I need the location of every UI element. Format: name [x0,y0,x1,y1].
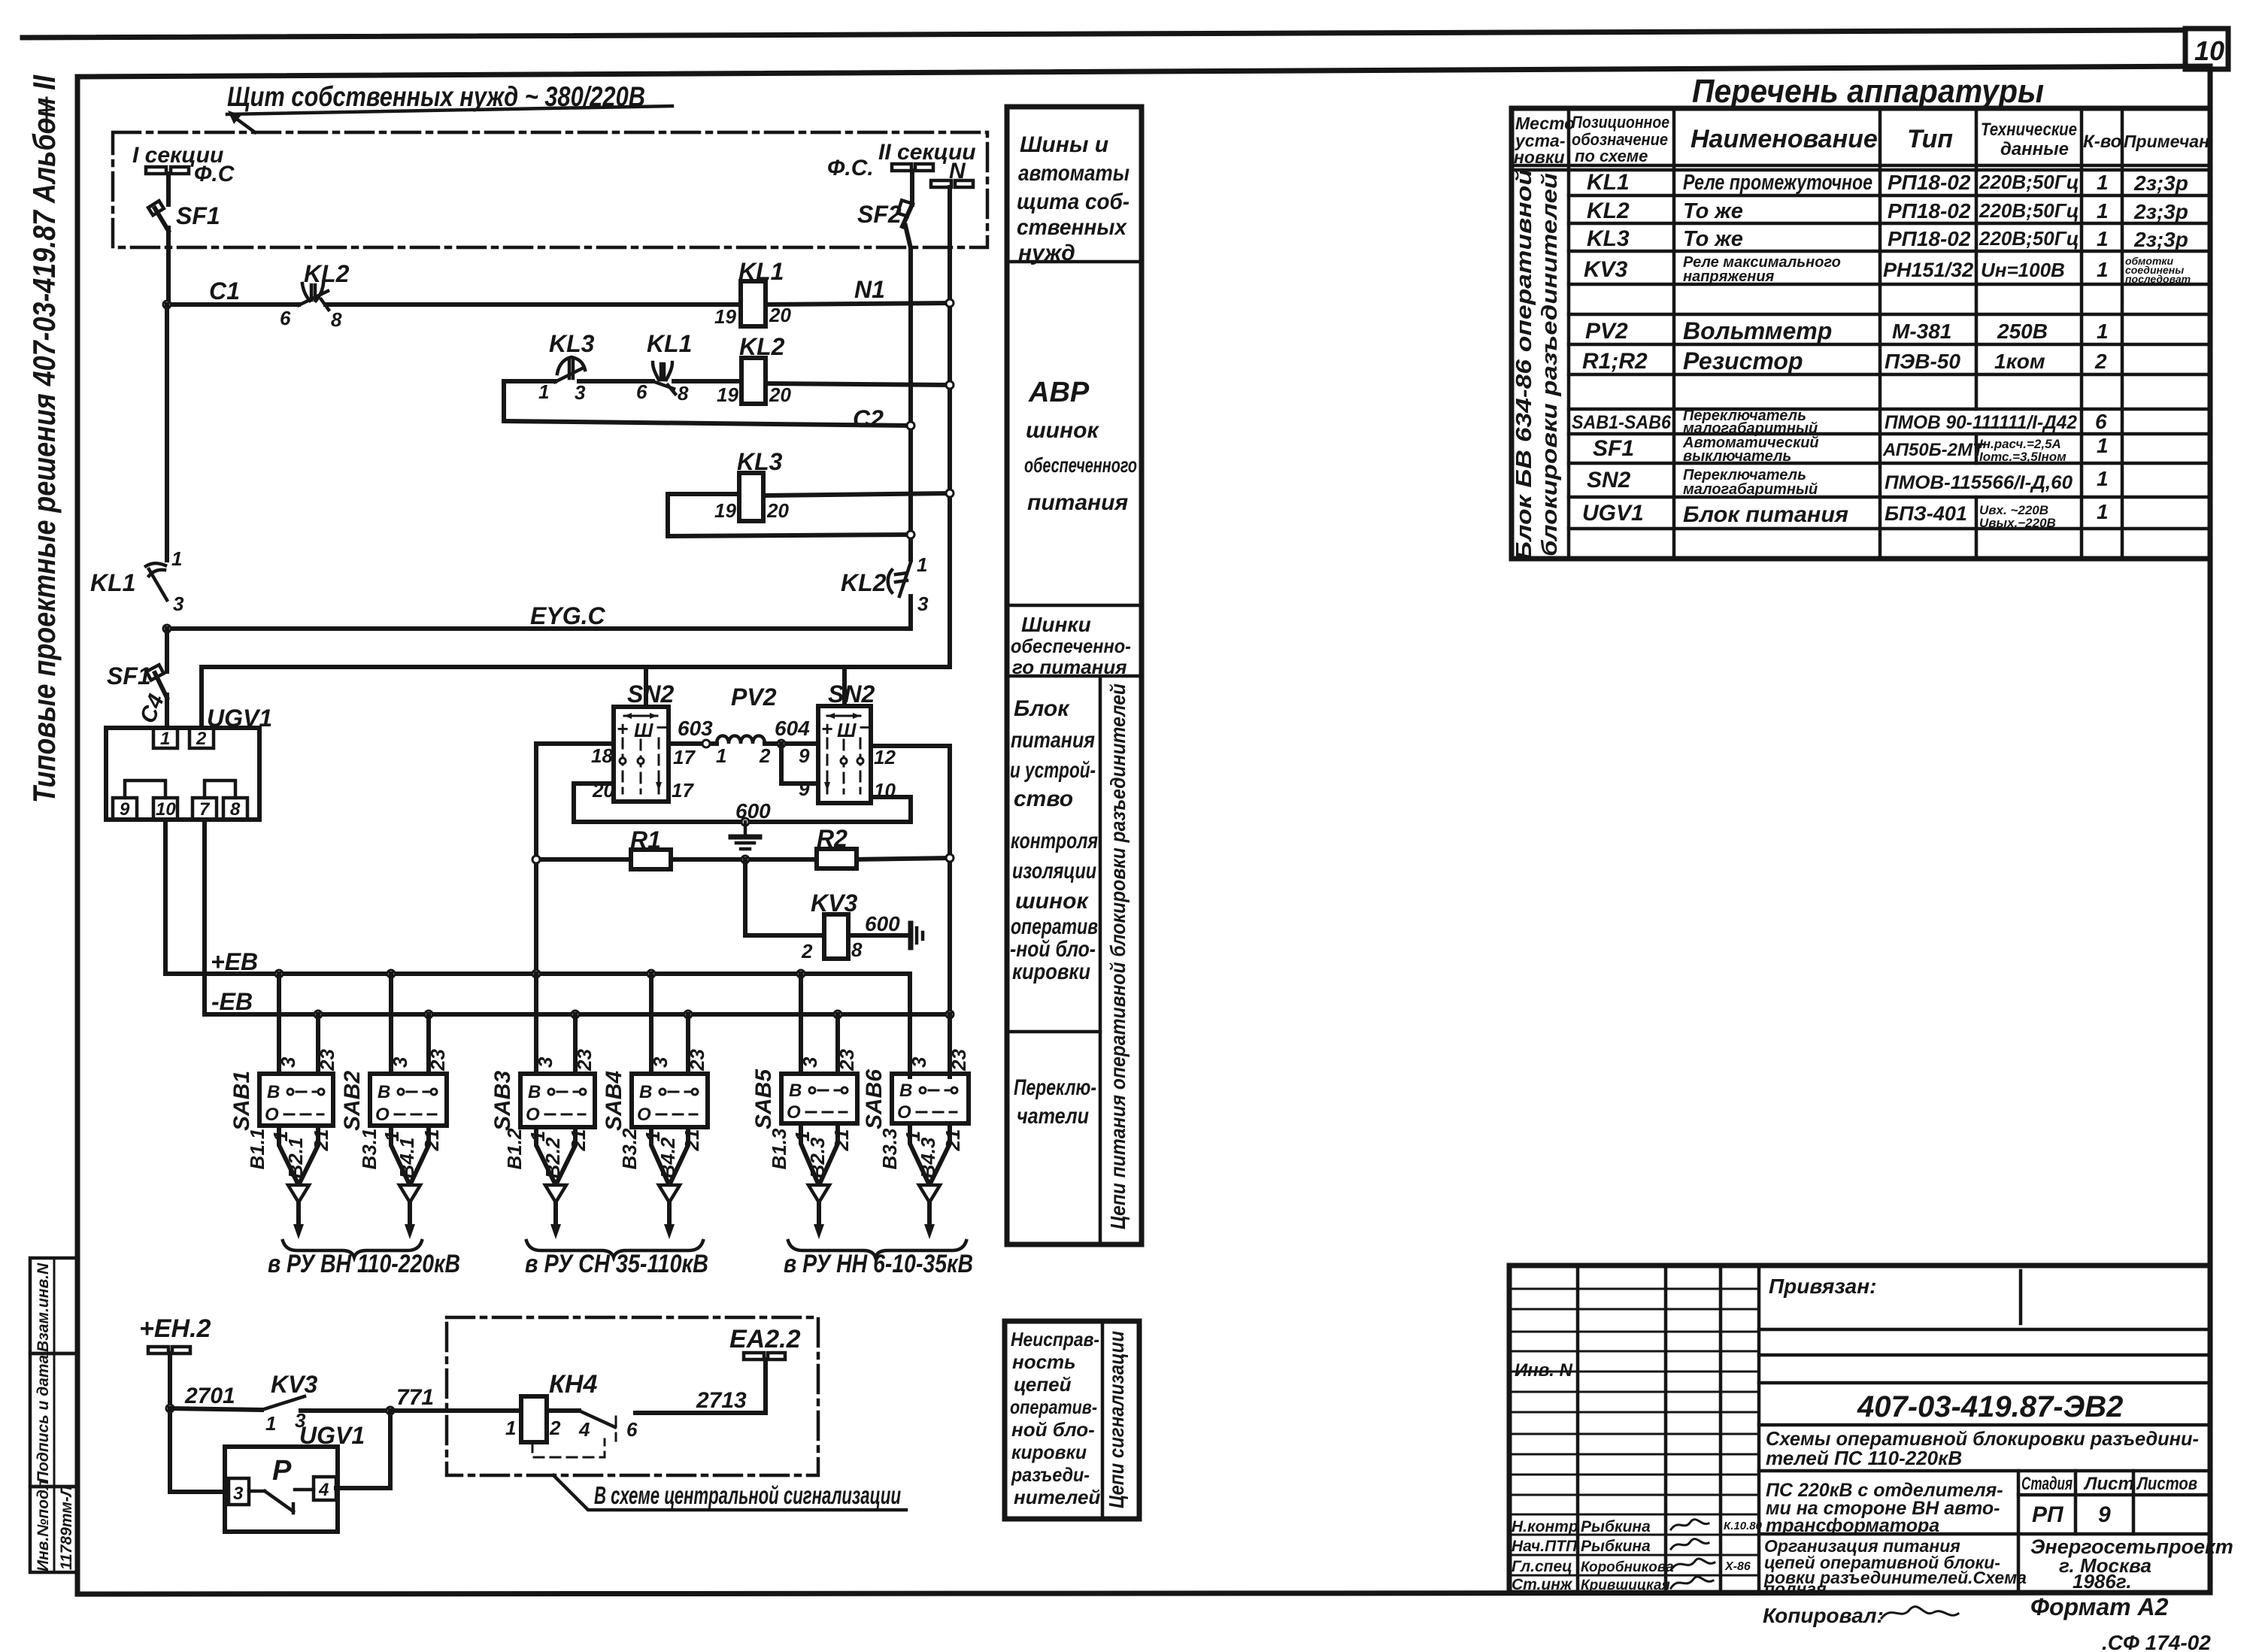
svg-text:малогабаритный: малогабаритный [1683,481,1818,498]
svg-text:12: 12 [874,746,896,768]
header Tekhnicheskie dannye [1981,120,2077,159]
svg-text:Р: Р [272,1455,292,1487]
svg-text:1: 1 [2097,227,2109,250]
svg-text:KL3: KL3 [737,448,783,475]
table column line 4 [1975,108,1979,559]
title block frame [1509,1266,2210,1593]
svg-text:телей ПС 110-220кВ: телей ПС 110-220кВ [1766,1447,1962,1469]
bus +EB [165,974,910,1077]
wire SAB5 pin23 [835,1014,840,1074]
svg-text:21: 21 [681,1129,703,1152]
node N1 on wire2 [946,299,954,307]
svg-text:3: 3 [233,1484,244,1504]
svg-text:РП18-02: РП18-02 [1888,171,1971,194]
svg-text:KL2: KL2 [304,260,350,287]
contact KH4 dashed tick [615,1417,617,1441]
zone text: AVR shinok [1024,377,1137,515]
svg-text:Рыбкина: Рыбкина [1581,1518,1651,1535]
svg-text:Блок питания: Блок питания [1683,502,1848,527]
svg-text:3: 3 [799,1056,821,1068]
underline of Album II [46,98,48,132]
svg-text:2: 2 [801,940,813,962]
svg-text:О: О [637,1105,651,1125]
row line KL3 [1569,250,2210,253]
switch SAB2 [340,1071,447,1131]
wire coil KL1 to N wire [766,303,950,305]
contact KH4 blade [579,1411,615,1427]
wire EYG.C down to SF1 lower [165,629,169,671]
svg-text:R1: R1 [630,826,661,853]
svg-text:R1;R2: R1;R2 [1582,349,1648,374]
svg-text:4: 4 [578,1418,590,1441]
svg-text:О: О [526,1105,540,1125]
relay coil KL3 [739,473,763,521]
wire SAB1 pin3 [277,974,281,1074]
wire row2 to coil KL2 [674,379,741,383]
wire SN2 top tap left [644,667,648,707]
svg-text:Копировал:: Копировал: [1763,1604,1884,1627]
wire 604 jog down to pin9 bottom [781,744,818,784]
svg-text:Наименование: Наименование [1690,125,1878,153]
svg-text:АП50Б-2МТ: АП50Б-2МТ [1882,440,1985,460]
wire KH4 to contact [547,1408,579,1413]
wire row2 between contacts [579,379,653,383]
leader to central signaling label [553,1475,906,1510]
svg-text:220В;50Гц: 220В;50Гц [1979,171,2079,193]
svg-text:Примечан.: Примечан. [2124,132,2214,151]
wire2 from N busbar down to pin2 line corner [948,187,952,667]
contact KV3 [262,1396,305,1410]
svg-text:ство: ство [1014,787,1073,811]
wire SN2 right top tap [842,667,847,706]
funnel SAB5 [801,1123,838,1239]
svg-text:РН151/32: РН151/32 [1883,259,1973,281]
wire 600 line [574,820,911,824]
svg-text:Гл.спец: Гл.спец [1512,1558,1572,1575]
zone divider 4 [1007,1030,1100,1034]
svg-text:SAB1: SAB1 [229,1071,254,1131]
svg-text:250В: 250В [1997,320,2048,343]
object description [1766,1480,2003,1536]
svg-text:KV3: KV3 [1584,257,1628,282]
svg-text:2713: 2713 [696,1388,747,1413]
svg-text:2: 2 [549,1417,561,1439]
small divider in privyazan cell [2019,1271,2023,1323]
svg-text:2701: 2701 [184,1384,235,1408]
svg-text:8: 8 [331,308,342,331]
svg-text:604: 604 [775,717,810,740]
svg-text:В: В [378,1082,390,1102]
svg-text:X-86: X-86 [1724,1560,1751,1573]
svg-text:3: 3 [389,1056,411,1068]
svg-text:1986г.: 1986г. [2073,1570,2132,1593]
svg-text:в РУ НН 6-10-35кВ: в РУ НН 6-10-35кВ [784,1250,973,1278]
stage header row line [2018,1493,2210,1497]
svg-text:UGV1: UGV1 [207,705,272,732]
svg-text:600: 600 [865,912,900,935]
svg-text:шинок: шинок [1026,418,1099,443]
svg-text:Перечень аппаратуры: Перечень аппаратуры [1692,73,2044,110]
svg-text:Стадия: Стадия [2021,1474,2073,1494]
svg-text:данные: данные [2000,139,2069,159]
svg-text:603: 603 [678,717,713,740]
svg-text:В2.1: В2.1 [284,1138,307,1179]
wire1 contact to EYG.C corner [167,596,911,629]
work description [1763,1536,2027,1599]
svg-text:-EB: -EB [211,988,253,1015]
svg-text:+: + [821,717,832,740]
contact KL2 on C1 bus [299,283,329,310]
brace RU NN [788,1241,966,1257]
svg-text:Подпись и дата: Подпись и дата [35,1354,52,1483]
svg-text:KL1: KL1 [738,258,784,285]
svg-text:шинок: шинок [1015,889,1089,914]
resistor R1 [630,826,671,869]
node row3 lower on wire1 [907,531,914,538]
svg-text:1: 1 [2097,199,2109,223]
svg-text:оператив-: оператив- [1010,1396,1097,1418]
wire2b continue to SAB6 23 [948,1014,952,1077]
svg-text:2з;3р: 2з;3р [2133,228,2188,251]
wire SAB4 pin3 [649,974,653,1074]
node -EB SAB5 [834,1011,841,1018]
svg-text:21: 21 [567,1129,590,1152]
svg-text:блокировки разъединителей: блокировки разъединителей [1538,173,1562,556]
wire contact to node 771 [301,1408,390,1413]
svg-text:+EH.2: +EH.2 [139,1314,211,1343]
svg-text:В: В [528,1082,541,1102]
svg-text:ПМОВ-115566/I-Д,60: ПМОВ-115566/I-Д,60 [1885,472,2073,493]
svg-text:-ной бло-: -ной бло- [1010,937,1096,962]
row SF1 [1593,434,2109,465]
node +EB SAB4 [647,970,655,978]
svg-text:+EB: +EB [211,948,258,975]
svg-text:Лист: Лист [2083,1474,2134,1494]
svg-text:2: 2 [759,744,771,767]
svg-text:SAB1-SAB6: SAB1-SAB6 [1572,412,1672,433]
node +EB SAB2 [387,970,395,978]
svg-text:питания: питания [1011,728,1095,753]
zone divider 3 [1007,674,1142,678]
power unit UGV1 [106,705,272,820]
row KL3 [1587,226,2188,251]
svg-text:10: 10 [2194,35,2224,66]
svg-text:PV2: PV2 [1585,319,1628,344]
sheet title: Щит собственных нужд [227,81,672,114]
svg-text:Тип: Тип [1907,125,1953,153]
row line KL2 [1569,222,2210,226]
UGV1 pin 9 [113,798,137,820]
svg-text:2: 2 [2094,350,2107,373]
relay coil KL2 [741,358,766,404]
node -EB SAB4 [684,1011,692,1018]
UGV1 internal bracket 9-10 [125,781,165,798]
svg-text:PV2: PV2 [731,684,777,711]
svg-text:Технические: Технические [1981,120,2077,140]
svg-text:KL2: KL2 [739,333,785,360]
svg-text:23: 23 [316,1049,338,1072]
svg-text:SAB5: SAB5 [751,1068,776,1129]
svg-text:цепей: цепей [1014,1373,1072,1396]
svg-text:1: 1 [2097,320,2109,343]
left margin box Подпись и дата [30,1353,77,1487]
svg-text:Н.контр: Н.контр [1512,1518,1578,1535]
svg-text:SF2: SF2 [857,201,902,228]
voltmeter PV2 coil [717,684,777,744]
svg-text:нителей: нителей [1014,1486,1100,1508]
node +EB 18-drop [532,970,540,978]
svg-text:−: − [859,716,870,738]
svg-text:9: 9 [2098,1502,2111,1527]
wire KV3 to ground 600 [848,933,906,938]
svg-text:23: 23 [686,1049,708,1072]
brace RU VN [283,1241,422,1257]
sheet number box "10" [2185,29,2228,69]
contact KL1 on left vertical [146,563,167,600]
wire R line from 18-drop [536,857,631,862]
svg-text:1: 1 [2097,171,2109,194]
svg-text:Шинки: Шинки [1021,613,1091,636]
node 604 [778,740,785,747]
zone text: Shinki obespechennogo [1011,613,1131,678]
svg-text:KL1: KL1 [1587,170,1630,195]
leader arrow from title to panel box [228,111,255,132]
switch SAB1 [229,1071,333,1131]
wire P pin4 right and up to node 771 [336,1411,390,1488]
UGV1 pin 8 [223,798,247,820]
svg-text:автоматы: автоматы [1018,161,1130,186]
svg-text:новки: новки [1514,147,1565,167]
svg-text:1: 1 [160,729,170,749]
svg-text:3: 3 [575,381,586,404]
svg-text:220В;50Гц: 220В;50Гц [1979,199,2079,222]
svg-text:АВР: АВР [1028,377,1090,408]
svg-text:В4.1: В4.1 [396,1138,418,1179]
svg-text:21: 21 [830,1129,853,1152]
row line R1R2 [1569,373,2210,377]
wire C1 bus left segment [167,302,299,307]
node C1 junction [163,301,171,308]
svg-text:Ш: Ш [837,719,857,741]
zone label box 2 [1005,1321,1139,1519]
svg-text:UGV1: UGV1 [1582,501,1644,526]
UGV1 pin 1 [153,728,177,749]
wire C1 bus right segment to coil KL1 [326,302,741,307]
svg-text:SF1: SF1 [176,202,220,229]
svg-text:Типовые проектные решения 4: Типовые проектные решения 407-03-419.87 … [26,74,62,803]
apparatus table frame [1512,108,2210,559]
svg-text:20: 20 [769,304,791,326]
svg-text:UGV1: UGV1 [299,1422,365,1449]
svg-text:нужд: нужд [1018,241,1075,265]
switch SAB3 [490,1071,595,1131]
wire row3 upper left segment [668,492,739,496]
node +EB SAB5 [797,970,805,978]
svg-text:изоляции: изоляции [1012,859,1096,884]
svg-text:ной бло-: ной бло- [1011,1418,1095,1441]
wire EH.2 down to node 2701 [168,1353,172,1408]
svg-text:9: 9 [799,778,810,800]
node 2701 [166,1405,174,1412]
svg-text:C1: C1 [209,277,240,305]
svg-text:17: 17 [672,779,694,802]
ground symbol right of KV3 [911,923,923,947]
svg-text:Резистор: Резистор [1683,347,1803,374]
svg-text:SAB3: SAB3 [490,1071,515,1131]
svg-text:О: О [787,1102,801,1123]
row line SAB [1569,432,2210,436]
svg-text:1: 1 [2097,467,2109,490]
wire SAB2 pin23 [426,1014,431,1074]
header Pozicionnoe [1572,113,1669,165]
svg-text:оператив: оператив [1011,914,1098,939]
relay coil KV3 [811,890,857,959]
organization [2030,1535,2233,1593]
svg-text:В: В [789,1081,802,1101]
svg-text:23: 23 [573,1049,596,1072]
svg-text:N1: N1 [854,276,885,303]
ground symbol under 600 [731,822,760,849]
bus -EB [205,1012,950,1017]
svg-text:SN2: SN2 [828,681,875,708]
svg-text:SAB4: SAB4 [602,1071,626,1131]
svg-text:Цепи питания оперативной блоки: Цепи питания оперативной блокировки разъ… [1106,684,1130,1229]
svg-text:21: 21 [420,1129,443,1152]
svg-text:23: 23 [835,1049,858,1072]
svg-text:напряжения: напряжения [1683,268,1775,285]
svg-text:разъеди-: разъеди- [1011,1463,1090,1486]
wire busbar II to SF2 [910,171,914,205]
row line PV2 [1569,343,2210,347]
svg-text:600: 600 [735,799,771,823]
svg-text:KL3: KL3 [549,330,595,357]
svg-text:Ф.С.: Ф.С. [827,156,874,180]
zone inner vertical divider [1099,676,1102,1244]
svg-text:KL1: KL1 [647,330,692,357]
table column line 1 [1567,108,1571,559]
svg-text:10: 10 [156,799,176,820]
svg-text:3: 3 [173,593,184,615]
svg-text:SN2: SN2 [1587,468,1631,493]
svg-text:407-03-419.87-ЭВ2: 407-03-419.87-ЭВ2 [1857,1390,2123,1423]
row line empty2 [1569,408,2210,411]
wire pin18 left then down to +EB [536,744,614,974]
svg-text:.СФ 174-02: .СФ 174-02 [2102,1631,2211,1652]
svg-text:В1.1: В1.1 [246,1129,268,1170]
row KL2 [1587,199,2188,223]
svg-text:6: 6 [2095,410,2107,433]
wire SAB1 pin23 [316,1014,320,1074]
svg-text:выключатель: выключатель [1683,448,1791,465]
table column line 6 [2121,108,2124,559]
node -EB SAB1 [314,1011,322,1018]
svg-text:Iотс.=3,5Iном: Iотс.=3,5Iном [1979,450,2066,464]
switch SAB6 [862,1069,969,1129]
svg-text:по схеме: по схеме [1575,147,1648,165]
busbar EA2.2 [744,1353,785,1359]
table column line 5 [2080,108,2084,559]
wire left loop down to P block [170,1408,225,1492]
svg-text:220В;50Гц: 220В;50Гц [1979,227,2079,250]
svg-text:Блок БВ 634-86 оперативной: Блок БВ 634-86 оперативной [1512,169,1536,560]
svg-text:Крившицкая: Крившицкая [1581,1578,1670,1593]
top outer border line [23,30,2185,38]
svg-text:1: 1 [2097,258,2109,281]
svg-text:В2.2: В2.2 [541,1137,564,1178]
svg-text:Uвых.−220В: Uвых.−220В [1979,516,2056,530]
zone divider 1 [1007,260,1142,264]
node +EB SAB1 [275,970,283,978]
svg-text:+: + [617,717,628,740]
node R line right on wire2b [946,854,954,862]
svg-text:В1.2: В1.2 [503,1128,526,1169]
svg-text:кировки: кировки [1011,1441,1087,1463]
switch SAB5 [751,1068,857,1129]
breaker SF1 top [148,201,168,231]
kopiroval signature [1882,1607,1958,1618]
svg-text:SF1: SF1 [1593,436,1634,461]
svg-text:771: 771 [396,1385,434,1410]
title block left grid verticals [1578,1266,1759,1593]
node 600 [741,818,749,826]
signature row N.kontr [1512,1518,1763,1535]
svg-text:23: 23 [426,1049,449,1072]
svg-text:В3.1: В3.1 [358,1129,381,1170]
UGV1 pin 2 [190,728,214,749]
breaker SF1 lower [147,665,167,698]
svg-text:KL1: KL1 [90,569,135,596]
svg-text:SF1: SF1 [107,662,151,690]
svg-text:3: 3 [649,1056,672,1068]
wire pin10 right down to 600 line [871,797,911,822]
svg-text:В схеме центральной сигнализац: В схеме центральной сигнализации [594,1481,901,1509]
svg-text:го питания: го питания [1012,656,1127,678]
svg-text:1: 1 [505,1417,516,1439]
UGV1 pin 7 [193,798,217,820]
node -EB SAB2 [425,1011,432,1018]
busbar N [931,180,973,187]
svg-text:1: 1 [2097,434,2109,457]
svg-text:4: 4 [318,1480,329,1500]
relay coil KH4 [521,1396,547,1442]
svg-text:R2: R2 [817,825,848,852]
wire busbar I to SF1 [166,174,171,205]
svg-text:О: О [265,1105,279,1125]
row line SN2 [1569,496,2210,499]
contact KL3 row2 [555,357,585,382]
svg-text:2з;3р: 2з;3р [2133,171,2188,195]
svg-text:Формат А2: Формат А2 [2030,1593,2169,1620]
svg-text:В4.2: В4.2 [656,1137,679,1178]
svg-text:KL2: KL2 [1587,199,1630,223]
svg-text:8: 8 [230,799,241,820]
busbar section II [892,164,933,171]
svg-text:В: В [899,1081,912,1101]
wire center node down to KV3 [745,859,824,935]
zone2 inner vertical divider [1101,1321,1105,1519]
title block right horizontals [1759,1329,2210,1534]
svg-text:Реле промежуточное: Реле промежуточное [1683,171,1872,195]
wire SAB3 pin23 [573,1014,578,1074]
zone text: Shiny i avtomaty [1017,132,1130,265]
svg-text:C2: C2 [853,405,884,432]
svg-text:питания: питания [1027,490,1128,515]
zone text: Blok pitaniya [1010,696,1098,984]
switch SAB4 [602,1071,708,1131]
svg-text:EA2.2: EA2.2 [729,1325,801,1353]
svg-text:В: В [267,1082,280,1102]
svg-text:1: 1 [917,553,927,576]
